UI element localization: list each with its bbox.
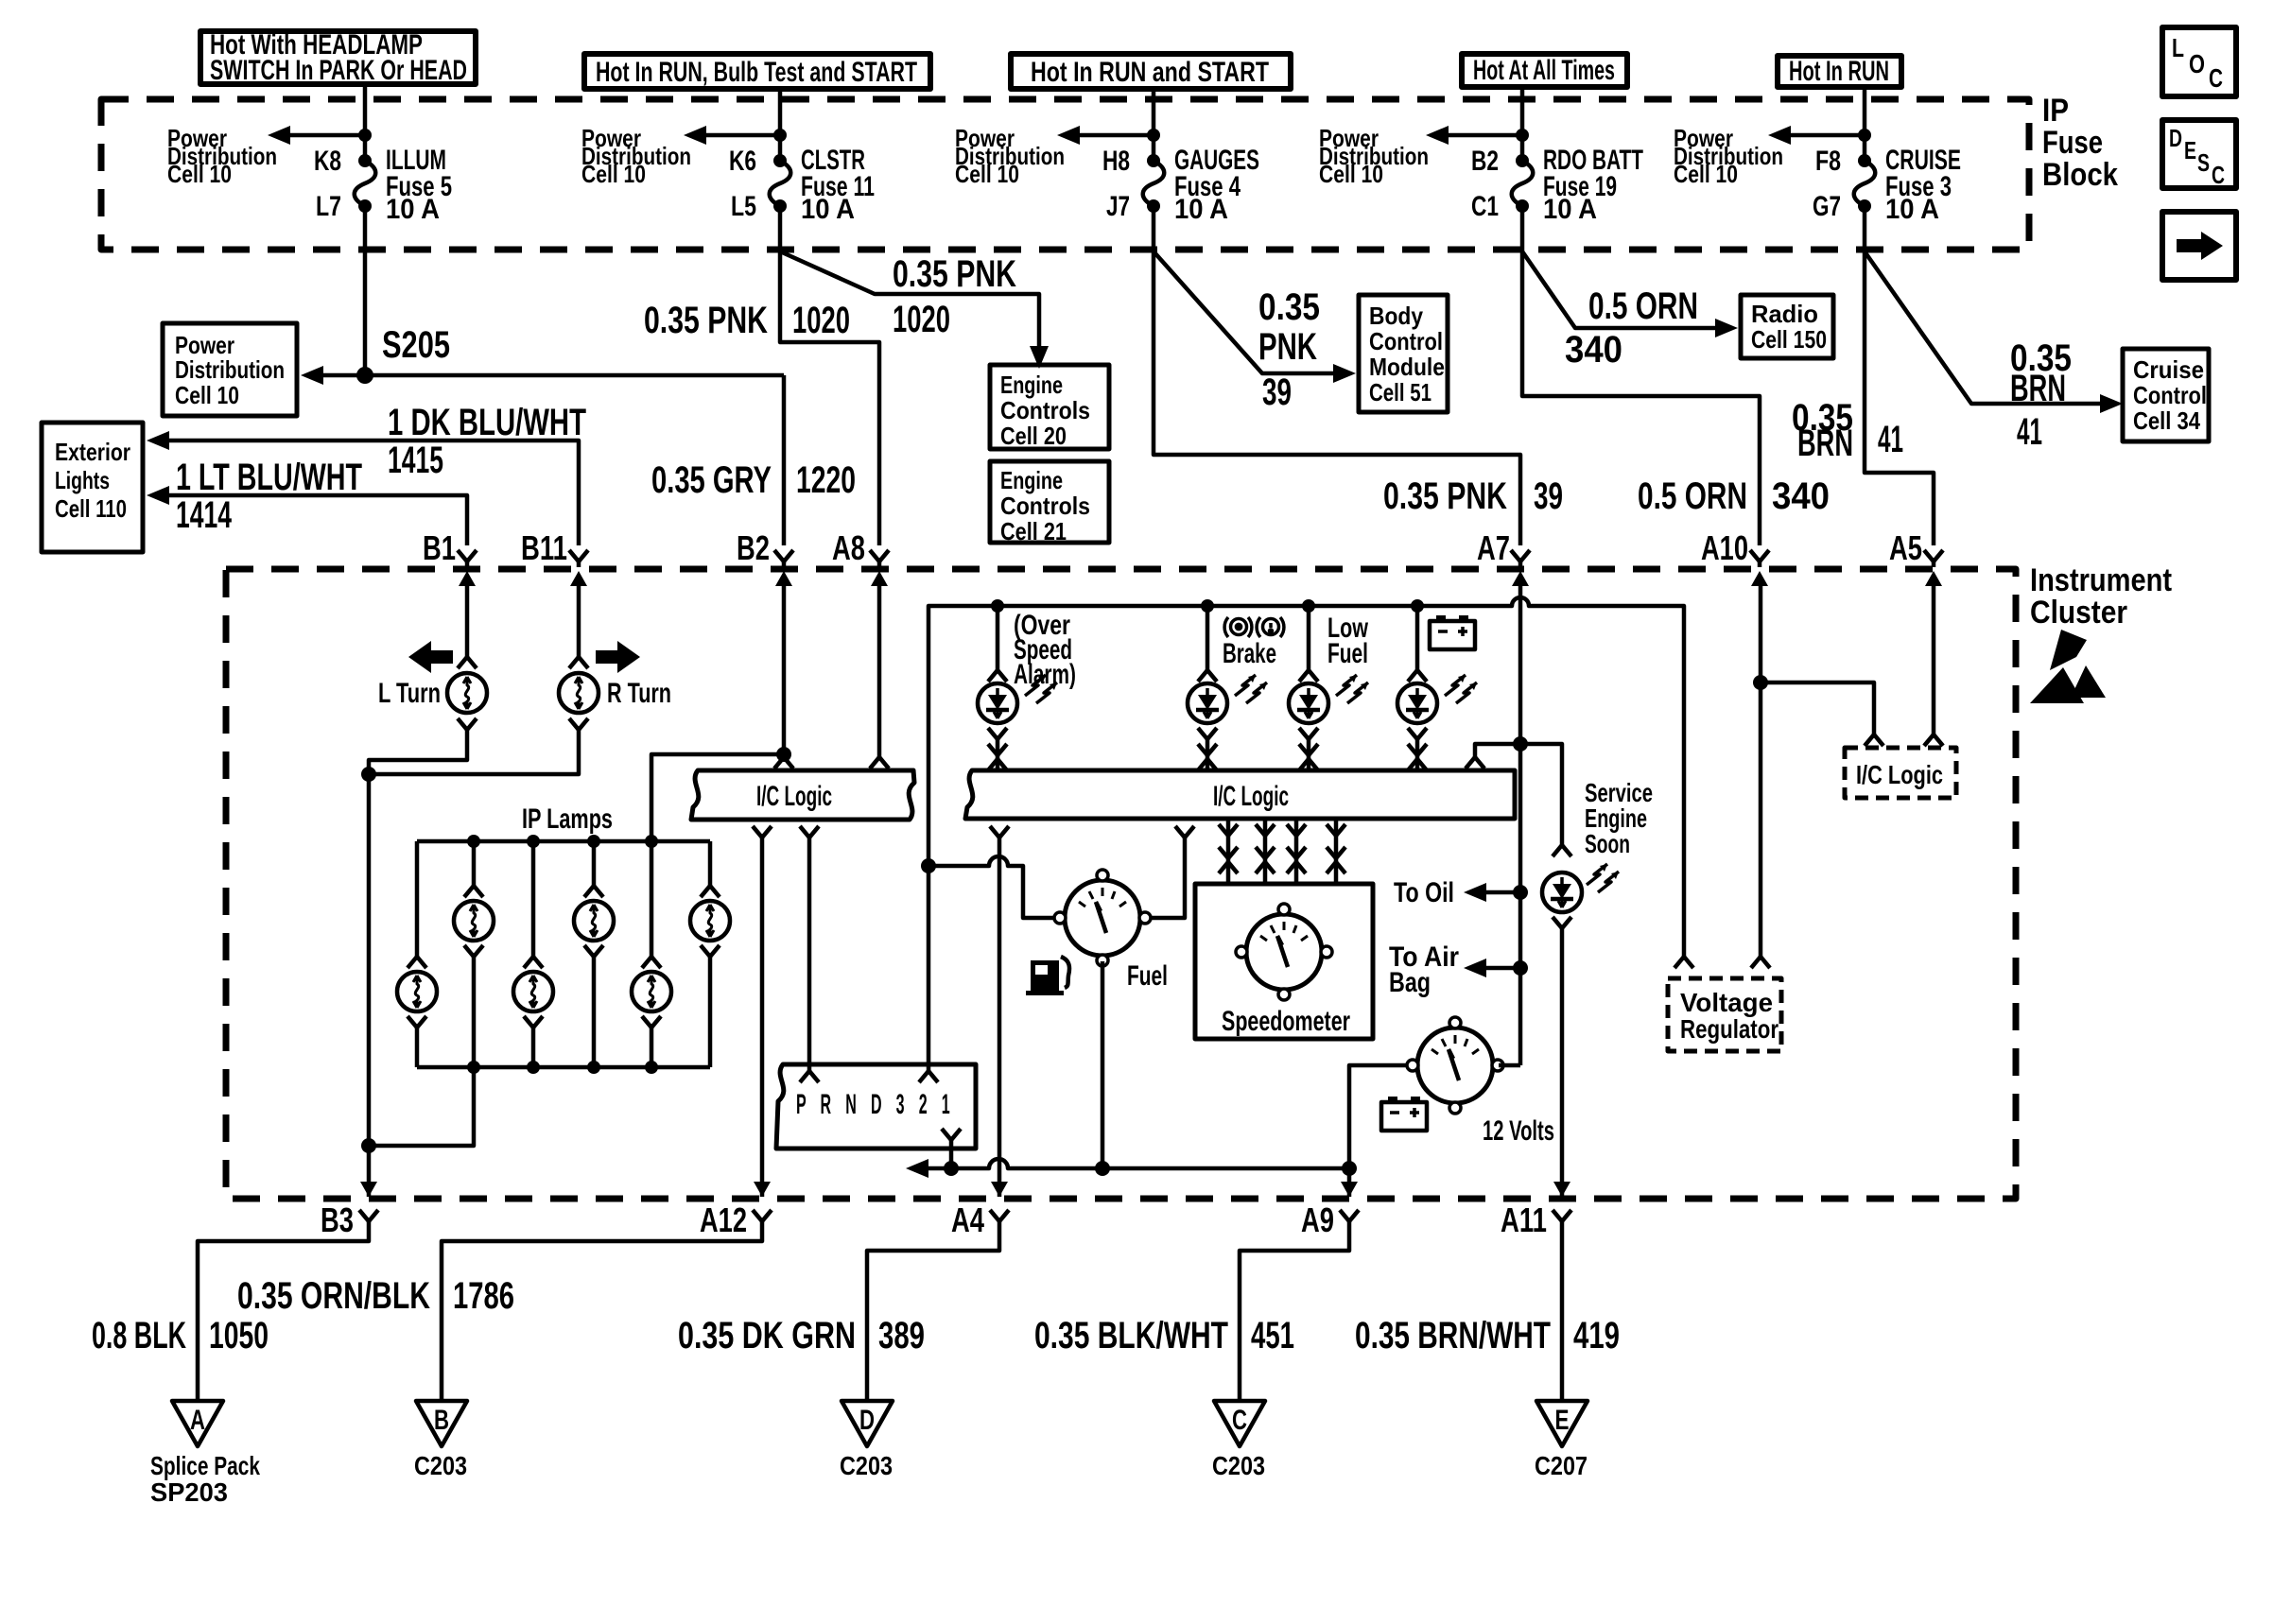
svg-text:Splice Pack: Splice Pack	[150, 1451, 260, 1480]
wire fuel gauge feed from bus	[921, 856, 1055, 918]
svg-text:0.35 GRY: 0.35 GRY	[651, 459, 772, 501]
svg-text:B1: B1	[423, 528, 456, 567]
wire B2 into cluster	[782, 579, 787, 756]
fuse group RDO BATT Fuse 19	[1319, 87, 1643, 225]
label 0.35 ORN/BLK 1786	[237, 1275, 514, 1317]
wire ORN 340 diagonal to Radio	[1522, 251, 1738, 371]
wire A4 to connector D	[867, 1221, 999, 1401]
cluster entry arrows below top border	[459, 571, 1942, 586]
svg-text:C203: C203	[414, 1451, 467, 1480]
wire power distribution branch 3	[1076, 133, 1154, 138]
wire A9 drop	[1347, 1168, 1352, 1197]
connector fuel sender output below IC logic 2	[990, 826, 1009, 1197]
label 0.35 DK GRN 389	[678, 1315, 925, 1356]
svg-text:0.35 ORN/BLK: 0.35 ORN/BLK	[237, 1275, 430, 1317]
connector chevrons below bottom border	[359, 1210, 1571, 1221]
svg-text:To Oil: To Oil	[1394, 877, 1454, 908]
svg-text:Brake: Brake	[1223, 638, 1276, 669]
svg-text:I/C Logic: I/C Logic	[1213, 781, 1289, 812]
fuel pump icon	[1026, 957, 1069, 995]
connector A (splice pack)	[150, 1401, 260, 1507]
svg-text:10 A: 10 A	[1885, 194, 1939, 225]
cluster exit arrows above bottom border	[360, 1182, 1570, 1197]
svg-text:0.35 PNK: 0.35 PNK	[893, 253, 1016, 295]
connector E C207	[1535, 1401, 1588, 1480]
svg-text:Fuse: Fuse	[2042, 125, 2103, 161]
svg-text:Cell 21: Cell 21	[1000, 517, 1067, 545]
wire 12V gauge right lead to A7 trunk	[1499, 1063, 1520, 1068]
battery icon (charge indicator)	[1430, 615, 1475, 649]
IP lamp column 6 (upper row)	[690, 841, 730, 1067]
svg-text:Cluster: Cluster	[2030, 595, 2127, 631]
svg-text:1050: 1050	[209, 1315, 269, 1356]
IP lamp column 5 (lower row, fed from B2 branch)	[632, 841, 671, 1067]
svg-text:0.35 PNK: 0.35 PNK	[1383, 475, 1507, 517]
svg-text:Cell 20: Cell 20	[1000, 422, 1067, 450]
wire branch to service LED	[1520, 744, 1562, 845]
svg-text:Engine: Engine	[1000, 466, 1063, 494]
svg-text:B2: B2	[1471, 146, 1499, 177]
svg-text:1415: 1415	[388, 440, 443, 481]
box Hot With HEADLAMP SWITCH	[200, 29, 476, 86]
node A10 branch	[1753, 675, 1768, 690]
svg-text:Module: Module	[1369, 353, 1445, 381]
svg-text:Cell 150: Cell 150	[1751, 325, 1827, 354]
svg-text:0.35 BRN/WHT: 0.35 BRN/WHT	[1355, 1315, 1551, 1356]
wire B2 branch to IP lamps	[651, 754, 784, 841]
label IP Fuse Block	[2042, 93, 2118, 193]
svg-text:C203: C203	[840, 1451, 893, 1480]
svg-text:0.5 ORN: 0.5 ORN	[1638, 475, 1747, 517]
wire feeder fuse 3	[1863, 87, 1867, 161]
box Radio Cell 150	[1741, 295, 1833, 358]
svg-text:BRN: BRN	[2010, 368, 2066, 409]
wire A11 to connector E	[1560, 1221, 1565, 1401]
svg-text:B: B	[434, 1405, 449, 1436]
node B2 branch	[776, 747, 791, 762]
wire BRN 41 diagonal to Cruise Control	[1865, 251, 2123, 453]
svg-text:Cell 110: Cell 110	[55, 494, 127, 523]
svg-text:L7: L7	[316, 191, 341, 222]
label Service Engine Soon	[1585, 778, 1653, 858]
fuse F11	[770, 154, 791, 213]
wire CRUISE G7 output to A5	[1865, 206, 1934, 545]
svg-text:Engine: Engine	[1000, 371, 1063, 399]
svg-text:0.35 BLK/WHT: 0.35 BLK/WHT	[1034, 1315, 1228, 1356]
svg-text:1786: 1786	[453, 1275, 514, 1317]
svg-text:Cell 51: Cell 51	[1369, 378, 1431, 406]
svg-text:Controls: Controls	[1000, 396, 1090, 424]
svg-text:A7: A7	[1477, 528, 1510, 567]
fuse F4	[1143, 154, 1165, 213]
svg-text:P R N D 3 2 1: P R N D 3 2 1	[796, 1089, 955, 1120]
connector chevron A12 below IC logic 1	[753, 826, 772, 1197]
wire power distribution branch 1	[286, 133, 365, 138]
wire voltage regulator chevrons	[1674, 957, 1770, 968]
box Speedometer	[1195, 884, 1373, 1039]
svg-text:Control: Control	[2133, 381, 2207, 409]
svg-text:F8: F8	[1815, 146, 1841, 177]
wire B1 to L Turn lamp	[465, 579, 470, 657]
svg-text:0.8 BLK: 0.8 BLK	[92, 1315, 186, 1356]
svg-text:389: 389	[878, 1315, 925, 1356]
cluster feed bus (A7 row)	[928, 597, 1684, 957]
fuse F5	[355, 154, 376, 213]
svg-text:PNK: PNK	[1258, 326, 1317, 368]
battery icon (12V)	[1381, 1097, 1427, 1131]
svg-text:SP203: SP203	[150, 1477, 228, 1507]
svg-text:L Turn: L Turn	[378, 678, 441, 709]
svg-text:419: 419	[1573, 1315, 1620, 1356]
connector D C203	[840, 1401, 893, 1480]
legend box DESC	[2162, 120, 2236, 189]
svg-text:Lights: Lights	[55, 466, 110, 494]
box Body Control Module Cell 51	[1359, 295, 1448, 412]
svg-text:Cell 10: Cell 10	[581, 160, 646, 188]
svg-text:1 LT BLU/WHT: 1 LT BLU/WHT	[176, 457, 362, 498]
svg-text:C1: C1	[1471, 191, 1499, 222]
wire GRY 1220 drop to B2	[782, 375, 787, 545]
svg-text:A8: A8	[832, 528, 865, 567]
box Power Distribution Cell 10	[163, 323, 297, 416]
box Exterior Lights Cell 110	[42, 423, 143, 552]
PRND output bus with left arrow	[906, 1159, 1357, 1178]
arrow right turn	[596, 641, 640, 673]
fuse group GAUGES Fuse 4	[955, 89, 1259, 225]
svg-text:Body: Body	[1369, 302, 1423, 330]
label 0.8 BLK 1050	[92, 1315, 269, 1356]
svg-text:0.5 ORN: 0.5 ORN	[1588, 285, 1698, 327]
box Voltage Regulator dashed	[1668, 978, 1781, 1051]
svg-text:K6: K6	[729, 146, 756, 177]
svg-text:D: D	[859, 1405, 875, 1436]
node B3 branch	[361, 1138, 376, 1153]
wire feeder fuse 19	[1520, 87, 1525, 161]
box Engine Controls Cell 20	[990, 365, 1109, 450]
box Cruise Control Cell 34	[2123, 349, 2209, 441]
wire To Air Bag branch	[1389, 942, 1528, 998]
svg-text:39: 39	[1262, 371, 1292, 413]
svg-text:H8: H8	[1102, 146, 1130, 177]
svg-text:Cell 10: Cell 10	[175, 381, 239, 409]
svg-text:A9: A9	[1301, 1201, 1334, 1239]
lamp R Turn	[569, 657, 588, 668]
svg-text:C: C	[2209, 63, 2223, 93]
svg-text:340: 340	[1565, 329, 1622, 371]
connector chevron to PRND below IC logic 1	[800, 826, 819, 1071]
legend box forward arrow	[2162, 212, 2236, 280]
svg-text:Bag: Bag	[1389, 967, 1431, 998]
svg-text:C: C	[1232, 1405, 1247, 1436]
svg-text:L5: L5	[731, 191, 756, 222]
connector chevrons above cluster border	[458, 550, 1943, 567]
svg-text:451: 451	[1251, 1315, 1294, 1356]
wire fuel gauge bottom to A4 bus	[1101, 961, 1105, 1168]
svg-text:SWITCH In PARK Or HEAD: SWITCH In PARK Or HEAD	[210, 55, 467, 86]
svg-text:10 A: 10 A	[801, 194, 855, 225]
box Engine Controls Cell 21	[990, 461, 1109, 545]
svg-text:B3: B3	[321, 1201, 354, 1239]
wire A8 into cluster	[877, 579, 882, 757]
speedometer connector columns	[1219, 819, 1345, 884]
svg-text:1220: 1220	[796, 459, 856, 501]
brake warning icons	[1224, 617, 1284, 637]
svg-text:Radio: Radio	[1751, 300, 1818, 328]
svg-text:1 DK BLU/WHT: 1 DK BLU/WHT	[388, 402, 586, 443]
IP lamps top bus	[417, 839, 710, 844]
svg-text:Cell 34: Cell 34	[2133, 406, 2200, 435]
wire power distribution branch 5	[1787, 133, 1865, 138]
svg-text:B2: B2	[737, 528, 770, 567]
wire branch to IP lamp bus	[369, 1067, 474, 1146]
svg-text:Instrument: Instrument	[2030, 562, 2172, 598]
svg-text:10 A: 10 A	[1543, 194, 1597, 225]
svg-text:E: E	[2184, 136, 2196, 164]
connector chevrons into PRND	[800, 1071, 961, 1168]
connector row labels at cluster bottom	[321, 1201, 1547, 1239]
svg-text:I/C Logic: I/C Logic	[1856, 760, 1943, 789]
fuse group CRUISE Fuse 3	[1674, 87, 1961, 225]
lamp L Turn	[458, 657, 477, 668]
ESD symbol	[2030, 630, 2106, 703]
svg-text:41: 41	[1878, 419, 1903, 460]
gauge 12 Volts	[1407, 1017, 1554, 1147]
wire A5 into small IC logic	[1924, 579, 1943, 746]
connector B C203	[414, 1401, 467, 1480]
box Hot At All Times	[1462, 54, 1627, 87]
gauge Fuel	[1054, 870, 1168, 992]
svg-text:Cruise: Cruise	[2133, 355, 2204, 384]
IP lamps bottom bus	[417, 1065, 710, 1070]
svg-text:C207: C207	[1535, 1451, 1588, 1480]
svg-text:Regulator: Regulator	[1680, 1014, 1778, 1044]
wire ILLUM output to S205	[363, 206, 368, 375]
wire A9 riser to 12V gauge	[1349, 1065, 1412, 1168]
wire CLSTR L5 output	[780, 206, 879, 545]
label Instrument Cluster	[2030, 562, 2172, 631]
fuse F3	[1854, 154, 1876, 213]
legend box LOC	[2162, 27, 2236, 96]
wire junction down to B3	[367, 774, 372, 1197]
wire S205 to Power Distribution (left arrow)	[318, 373, 784, 378]
svg-text:O: O	[2189, 49, 2205, 78]
svg-text:340: 340	[1772, 475, 1830, 517]
svg-text:0.35 PNK: 0.35 PNK	[644, 300, 768, 341]
LED Service Engine Soon	[1542, 845, 1619, 928]
svg-text:Fuel: Fuel	[1127, 960, 1168, 992]
box I/C Logic small dashed	[1845, 748, 1956, 798]
LED charge	[1397, 606, 1477, 770]
connector row labels at cluster top	[423, 528, 1922, 567]
svg-text:41: 41	[2017, 411, 2042, 453]
svg-text:J7: J7	[1106, 191, 1130, 222]
svg-text:A10: A10	[1701, 528, 1748, 567]
box I/C Logic 1	[691, 770, 914, 820]
svg-text:Hot In RUN: Hot In RUN	[1789, 56, 1889, 87]
svg-text:Speedometer: Speedometer	[1222, 1006, 1350, 1037]
svg-text:Cell 10: Cell 10	[1319, 160, 1383, 188]
wire feeder fuse 4	[1152, 89, 1156, 161]
svg-text:Fuel: Fuel	[1327, 638, 1368, 669]
svg-text:Exterior: Exterior	[55, 438, 130, 466]
svg-text:I/C Logic: I/C Logic	[756, 781, 832, 812]
svg-text:IP Lamps: IP Lamps	[522, 803, 613, 835]
svg-text:Cell 10: Cell 10	[167, 160, 232, 188]
wire power distribution branch 4	[1445, 133, 1522, 138]
fuse group CLSTR Fuse 11	[581, 89, 875, 225]
svg-text:A: A	[190, 1405, 205, 1436]
wire 1 DK BLU/WHT 1415 to B11	[147, 402, 586, 545]
LED Brake	[1188, 606, 1267, 770]
LED Over Speed Alarm	[978, 606, 1057, 770]
node A7 branch to IC logic and service LED	[1513, 736, 1528, 752]
wire PNK 39 diagonal to BCM	[1154, 251, 1356, 413]
svg-text:Soon: Soon	[1585, 829, 1630, 858]
svg-text:C203: C203	[1212, 1451, 1265, 1480]
IP lamp column 4 (upper row)	[574, 841, 614, 1067]
wire feeder fuse 11	[778, 89, 783, 161]
wire A12 to connector B	[442, 1221, 762, 1401]
connector chevron A8 into IC logic	[870, 757, 889, 769]
svg-text:Hot In RUN and START: Hot In RUN and START	[1031, 57, 1269, 88]
connector C C203	[1212, 1401, 1265, 1480]
svg-text:A4: A4	[951, 1201, 984, 1239]
svg-text:12 Volts: 12 Volts	[1483, 1115, 1554, 1147]
svg-text:Cell 10: Cell 10	[1674, 160, 1738, 188]
svg-text:IP: IP	[2042, 93, 2069, 129]
wire branch to IC logic 2 right input	[1466, 744, 1520, 769]
svg-text:0.35: 0.35	[1258, 286, 1320, 328]
svg-text:39: 39	[1534, 475, 1563, 517]
svg-text:10 A: 10 A	[386, 194, 440, 225]
arrow left turn	[408, 641, 453, 673]
svg-text:A11: A11	[1501, 1201, 1547, 1239]
wire To Oil branch	[1394, 877, 1528, 908]
LED Low Fuel	[1289, 606, 1368, 770]
box Hot In RUN Bulb Test and START	[584, 54, 930, 89]
wire A9 to connector C	[1240, 1221, 1349, 1401]
box Hot In RUN and START	[1011, 54, 1291, 89]
fuse group ILLUM Fuse 5	[167, 84, 452, 225]
box PRND321	[776, 1064, 976, 1149]
svg-text:Cell 10: Cell 10	[955, 160, 1019, 188]
svg-text:C: C	[2212, 161, 2225, 189]
IP lamp column 2 (upper row)	[454, 841, 494, 1067]
wire service LED to A11	[1560, 928, 1565, 1197]
svg-text:1414: 1414	[176, 494, 232, 536]
wire feeder fuse 5	[363, 84, 368, 161]
IP Fuse Block dashed box	[101, 99, 2029, 250]
wire 1 LT BLU/WHT 1414 to B1	[147, 457, 467, 545]
svg-text:D: D	[2169, 124, 2182, 152]
svg-text:10 A: 10 A	[1174, 194, 1228, 225]
svg-text:S205: S205	[382, 324, 450, 366]
box Hot In RUN	[1778, 56, 1901, 87]
wire A10 branch to small IC logic	[1761, 682, 1883, 746]
IP lamp column 3 (lower row)	[513, 841, 553, 1067]
IP lamp column 1 (lower row)	[397, 841, 437, 1067]
node turn lamp junction	[361, 767, 376, 782]
svg-text:G7: G7	[1813, 191, 1841, 222]
svg-text:Hot In RUN, Bulb Test and STAR: Hot In RUN, Bulb Test and START	[596, 57, 917, 88]
svg-text:BRN: BRN	[1797, 423, 1853, 464]
connector chevron fuel gauge right lead	[1152, 826, 1194, 918]
svg-text:S: S	[2197, 148, 2210, 177]
svg-text:0.35 DK GRN: 0.35 DK GRN	[678, 1315, 856, 1356]
svg-text:Control: Control	[1369, 327, 1443, 355]
svg-text:Voltage: Voltage	[1680, 988, 1773, 1017]
wire RDO BATT C1 output to A10	[1522, 206, 1760, 545]
wire GAUGES J7 output to A7	[1154, 206, 1520, 545]
svg-text:Hot At All Times: Hot At All Times	[1473, 55, 1615, 86]
svg-text:A12: A12	[700, 1201, 747, 1239]
label Over Speed Alarm	[1014, 610, 1076, 690]
wire R Turn to junction	[369, 730, 579, 774]
wire long vertical to PRND	[927, 866, 931, 1071]
label 0.35 BRN/WHT 419	[1355, 1315, 1620, 1356]
wire B3 to splice pack A	[198, 1221, 369, 1401]
svg-text:Distribution: Distribution	[175, 355, 285, 384]
svg-text:Controls: Controls	[1000, 492, 1090, 520]
wire PNK 1020 diagonal to Engine Controls	[780, 251, 1049, 369]
svg-text:1020: 1020	[792, 300, 850, 341]
wire A10 trunk	[1759, 579, 1763, 957]
wire B11 to R Turn lamp	[577, 579, 581, 657]
svg-text:L: L	[2172, 33, 2184, 62]
svg-text:B11: B11	[521, 528, 567, 567]
connector chevron B2 into IC logic	[774, 757, 793, 769]
svg-text:A5: A5	[1889, 528, 1922, 567]
box I/C Logic 2	[965, 770, 1515, 819]
wire L Turn to junction	[369, 730, 467, 774]
svg-text:R Turn: R Turn	[607, 678, 671, 709]
svg-text:K8: K8	[314, 146, 341, 177]
label 0.35 BLK/WHT 451	[1034, 1315, 1294, 1356]
Instrument Cluster dashed border	[226, 569, 2016, 1199]
svg-text:E: E	[1555, 1405, 1570, 1436]
node S205	[356, 367, 373, 384]
fuse F19	[1512, 154, 1534, 213]
label Low Fuel	[1327, 613, 1368, 669]
svg-text:Block: Block	[2042, 157, 2118, 193]
wire A7 trunk inside cluster	[1518, 579, 1523, 1065]
wire power distribution branch 2	[703, 133, 780, 138]
svg-text:1020: 1020	[893, 299, 950, 340]
